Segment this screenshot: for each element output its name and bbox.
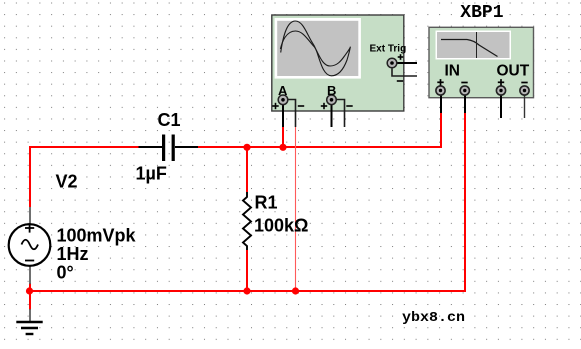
svg-text:1Hz: 1Hz xyxy=(57,244,89,264)
svg-text:1µF: 1µF xyxy=(136,164,167,184)
svg-text:V2: V2 xyxy=(56,172,78,192)
svg-text:ybx8.cn: ybx8.cn xyxy=(402,310,465,326)
svg-text:XBP1: XBP1 xyxy=(460,3,503,23)
svg-text:R1: R1 xyxy=(255,193,278,213)
svg-text:C1: C1 xyxy=(158,110,181,130)
svg-text:Ext Trig: Ext Trig xyxy=(370,44,407,55)
svg-text:0°: 0° xyxy=(57,262,74,282)
svg-text:100kΩ: 100kΩ xyxy=(254,216,308,236)
svg-text:A: A xyxy=(278,83,288,98)
svg-text:B: B xyxy=(327,83,336,98)
svg-text:100mVpk: 100mVpk xyxy=(57,226,137,246)
svg-text:IN: IN xyxy=(445,62,461,79)
svg-text:OUT: OUT xyxy=(497,62,530,79)
